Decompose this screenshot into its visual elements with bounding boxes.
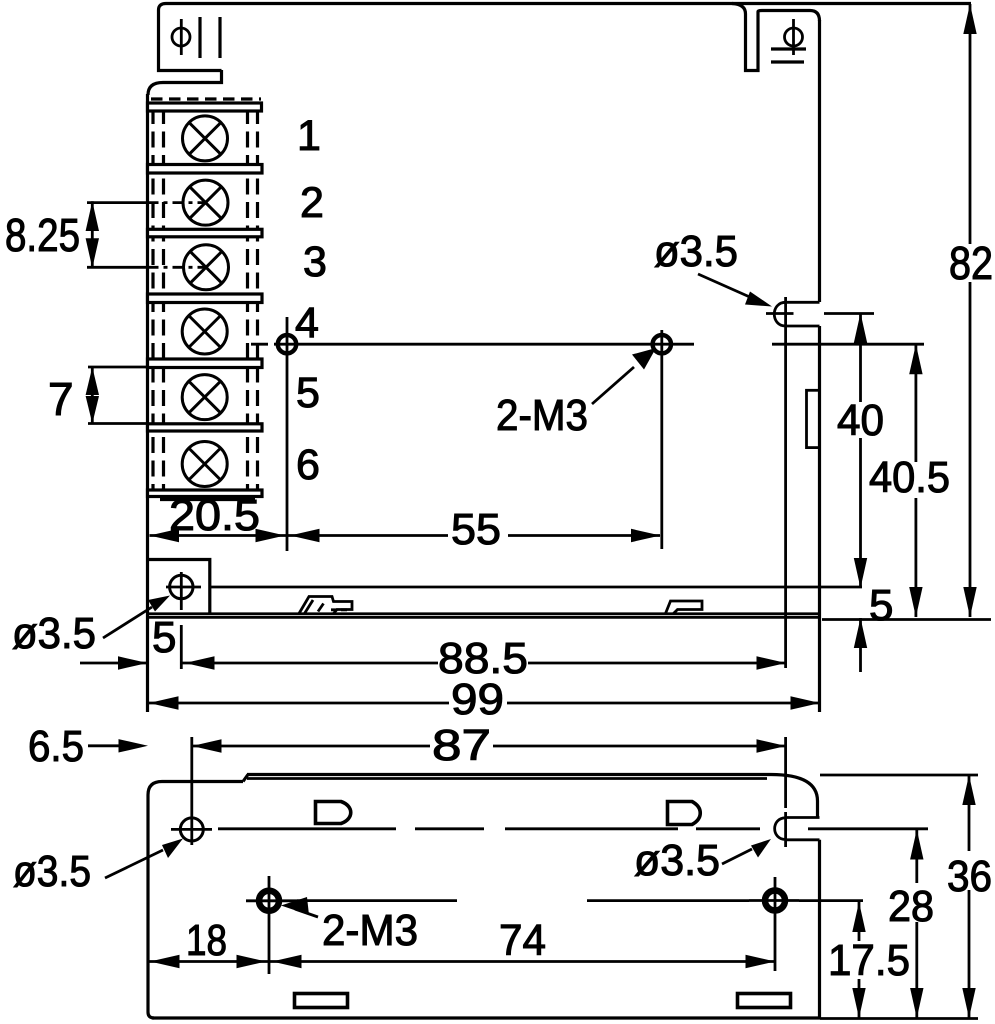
bottom view bottom edge	[152, 1016, 820, 1019]
bottom edge ext right	[820, 1017, 978, 1020]
dim 40 vertical	[859, 313, 862, 588]
svg-text:5: 5	[152, 613, 176, 662]
leader arrow o3.5 bottom-right	[722, 849, 752, 864]
ext vertical x=820 below case	[818, 617, 821, 712]
ground symbol circle in right tab	[785, 28, 803, 46]
dim line 5 / 88.5	[80, 662, 786, 665]
dim 5 right bottom arrow	[859, 618, 862, 672]
svg-text:36: 36	[947, 852, 992, 901]
svg-text:40.5: 40.5	[869, 453, 950, 502]
leader arrow o3.5 upper right	[698, 274, 752, 298]
hole connecting line (to right M3 and 40.5 ext)	[274, 343, 694, 346]
leader arrow 2-M3 (upper)	[592, 367, 634, 404]
M3 hole right (upper view)	[653, 335, 671, 353]
slot centerline	[766, 312, 794, 315]
case right edge lower	[818, 326, 821, 712]
right side ext vertical x=786	[784, 297, 787, 668]
dim 6.5 arrow	[88, 744, 134, 747]
case top edge (also 82-dim extension line)	[166, 2, 971, 5]
svg-text:17.5: 17.5	[828, 936, 910, 985]
terminal block hidden vertical line d	[256, 111, 259, 490]
svg-text:28: 28	[888, 882, 934, 931]
dim line 87	[192, 745, 786, 748]
bottom view top edge left part with step	[162, 775, 248, 782]
M3 hole left (bottom view)	[259, 891, 279, 911]
svg-text:1: 1	[297, 112, 321, 160]
ground symbol bar 2	[771, 60, 804, 63]
terminal block hidden dashed top line	[151, 97, 261, 100]
svg-text:5: 5	[869, 581, 893, 630]
dim line 20.5 / 55	[150, 534, 661, 537]
left tab bar 2	[218, 17, 221, 58]
fuse symbol vertical line	[180, 19, 183, 55]
bottom vent slot right	[738, 994, 791, 1008]
terminal screw 3	[184, 245, 229, 290]
svg-text:2-M3: 2-M3	[496, 391, 588, 440]
side slot notch (right, upper view)	[774, 302, 819, 326]
ext vertical x=786 (bottom view)	[784, 737, 787, 808]
flange hole o3.5 (upper view)	[170, 575, 193, 598]
terminal block rail 5	[148, 359, 263, 368]
terminal block hidden vertical line b	[162, 111, 165, 490]
svg-text:2-M3: 2-M3	[322, 906, 418, 955]
M3 hole left (upper view)	[278, 335, 296, 353]
terminal screw 1	[183, 116, 228, 161]
ground symbol vertical line	[792, 19, 795, 55]
terminal block rail 6	[148, 424, 263, 431]
svg-text:6: 6	[296, 441, 320, 489]
terminal block bottom lip	[160, 498, 255, 501]
dim 40.5 vertical	[915, 344, 918, 617]
mounting flange box bottom-left	[148, 560, 210, 614]
dim 17.5 vertical	[858, 902, 861, 1018]
svg-text:7: 7	[48, 373, 74, 425]
terminal block hidden vertical line c	[246, 111, 249, 490]
DIN clip left	[299, 597, 352, 614]
dim 7 extension lines	[88, 367, 148, 424]
svg-text:74: 74	[499, 916, 546, 965]
dim line 99	[149, 702, 820, 705]
svg-text:ø3.5: ø3.5	[12, 609, 96, 658]
bottom view top-left corner and left edge	[148, 782, 162, 1019]
top-right notch	[732, 4, 820, 71]
bottom view right notch	[775, 818, 820, 840]
terminal block bottom rail	[148, 490, 263, 497]
terminal screw 6	[182, 442, 227, 487]
centerline terminal 3	[87, 266, 207, 269]
dim 8.25 lines and arrows	[91, 201, 94, 268]
terminal screw 4	[182, 309, 227, 354]
left tab bar 1	[198, 17, 201, 58]
bottom view top edge second line	[247, 777, 767, 780]
bottom ext line right	[822, 618, 991, 621]
M3 hole right centerline vertical	[660, 330, 663, 549]
terminal block rail 2	[148, 165, 263, 174]
leader arrow o3.5 lower-left	[103, 607, 152, 638]
svg-text:2: 2	[300, 179, 324, 227]
svg-text:ø3.5: ø3.5	[634, 836, 720, 885]
svg-text:3: 3	[303, 238, 327, 286]
dim line 18 / 74	[148, 960, 775, 963]
terminal screw 5	[182, 375, 227, 420]
svg-text:40: 40	[837, 396, 884, 445]
svg-text:18: 18	[186, 916, 227, 965]
svg-text:20.5: 20.5	[169, 491, 260, 540]
ground tab / case right edge upper	[818, 20, 821, 302]
bottom view hole o3.5 left	[180, 818, 203, 841]
leader arrow o3.5 bottom-left	[105, 850, 163, 878]
bottom view top edge upper line	[247, 775, 818, 818]
leader arrow 2-M3 (bottom)	[295, 909, 318, 917]
centerline between holes y=829	[218, 827, 928, 830]
M3 hole left centerline vertical	[286, 317, 289, 551]
ground symbol bar 1	[771, 47, 806, 50]
terminal screw 2	[183, 180, 228, 225]
svg-text:6.5: 6.5	[28, 722, 84, 771]
svg-text:87: 87	[432, 721, 491, 770]
svg-text:4: 4	[295, 299, 319, 347]
top edge ext right (bottom view, for 36)	[820, 774, 978, 777]
svg-text:ø3.5: ø3.5	[13, 847, 91, 896]
stamped D feature right	[668, 802, 701, 825]
stamped D feature left	[316, 802, 351, 824]
hole centerline vertical	[190, 737, 193, 845]
bottom view right edge below notch	[818, 840, 821, 1018]
bottom vent slot left	[295, 994, 348, 1008]
svg-text:82: 82	[949, 237, 993, 289]
svg-text:99: 99	[451, 675, 504, 724]
M3 hole right (bottom view)	[765, 891, 785, 911]
dim 36 vertical	[968, 775, 971, 1018]
top-left flange tab outline	[159, 4, 222, 71]
svg-text:5: 5	[296, 369, 320, 417]
M3 hole left centerline horizontal stub	[251, 343, 268, 346]
dim 28 vertical	[915, 830, 918, 1019]
svg-text:8.25: 8.25	[5, 209, 80, 261]
dim 82 vertical	[969, 4, 972, 617]
DIN clip right	[666, 601, 703, 614]
terminal block hidden vertical line a	[151, 111, 154, 490]
chassis bottom double line	[148, 612, 821, 615]
terminal block rail 4	[148, 294, 263, 303]
svg-text:55: 55	[451, 505, 501, 554]
terminal block rail 3	[148, 229, 263, 237]
chassis base plate top line	[210, 586, 862, 589]
centerline terminal 2	[87, 201, 207, 204]
centerline between M3 holes y=900	[297, 899, 863, 902]
side slot rectangle on right wall	[807, 390, 820, 447]
terminal block top rail	[148, 103, 262, 111]
case left edge	[146, 94, 149, 712]
svg-text:ø3.5: ø3.5	[654, 227, 738, 276]
fuse symbol circle in left tab	[172, 28, 190, 46]
